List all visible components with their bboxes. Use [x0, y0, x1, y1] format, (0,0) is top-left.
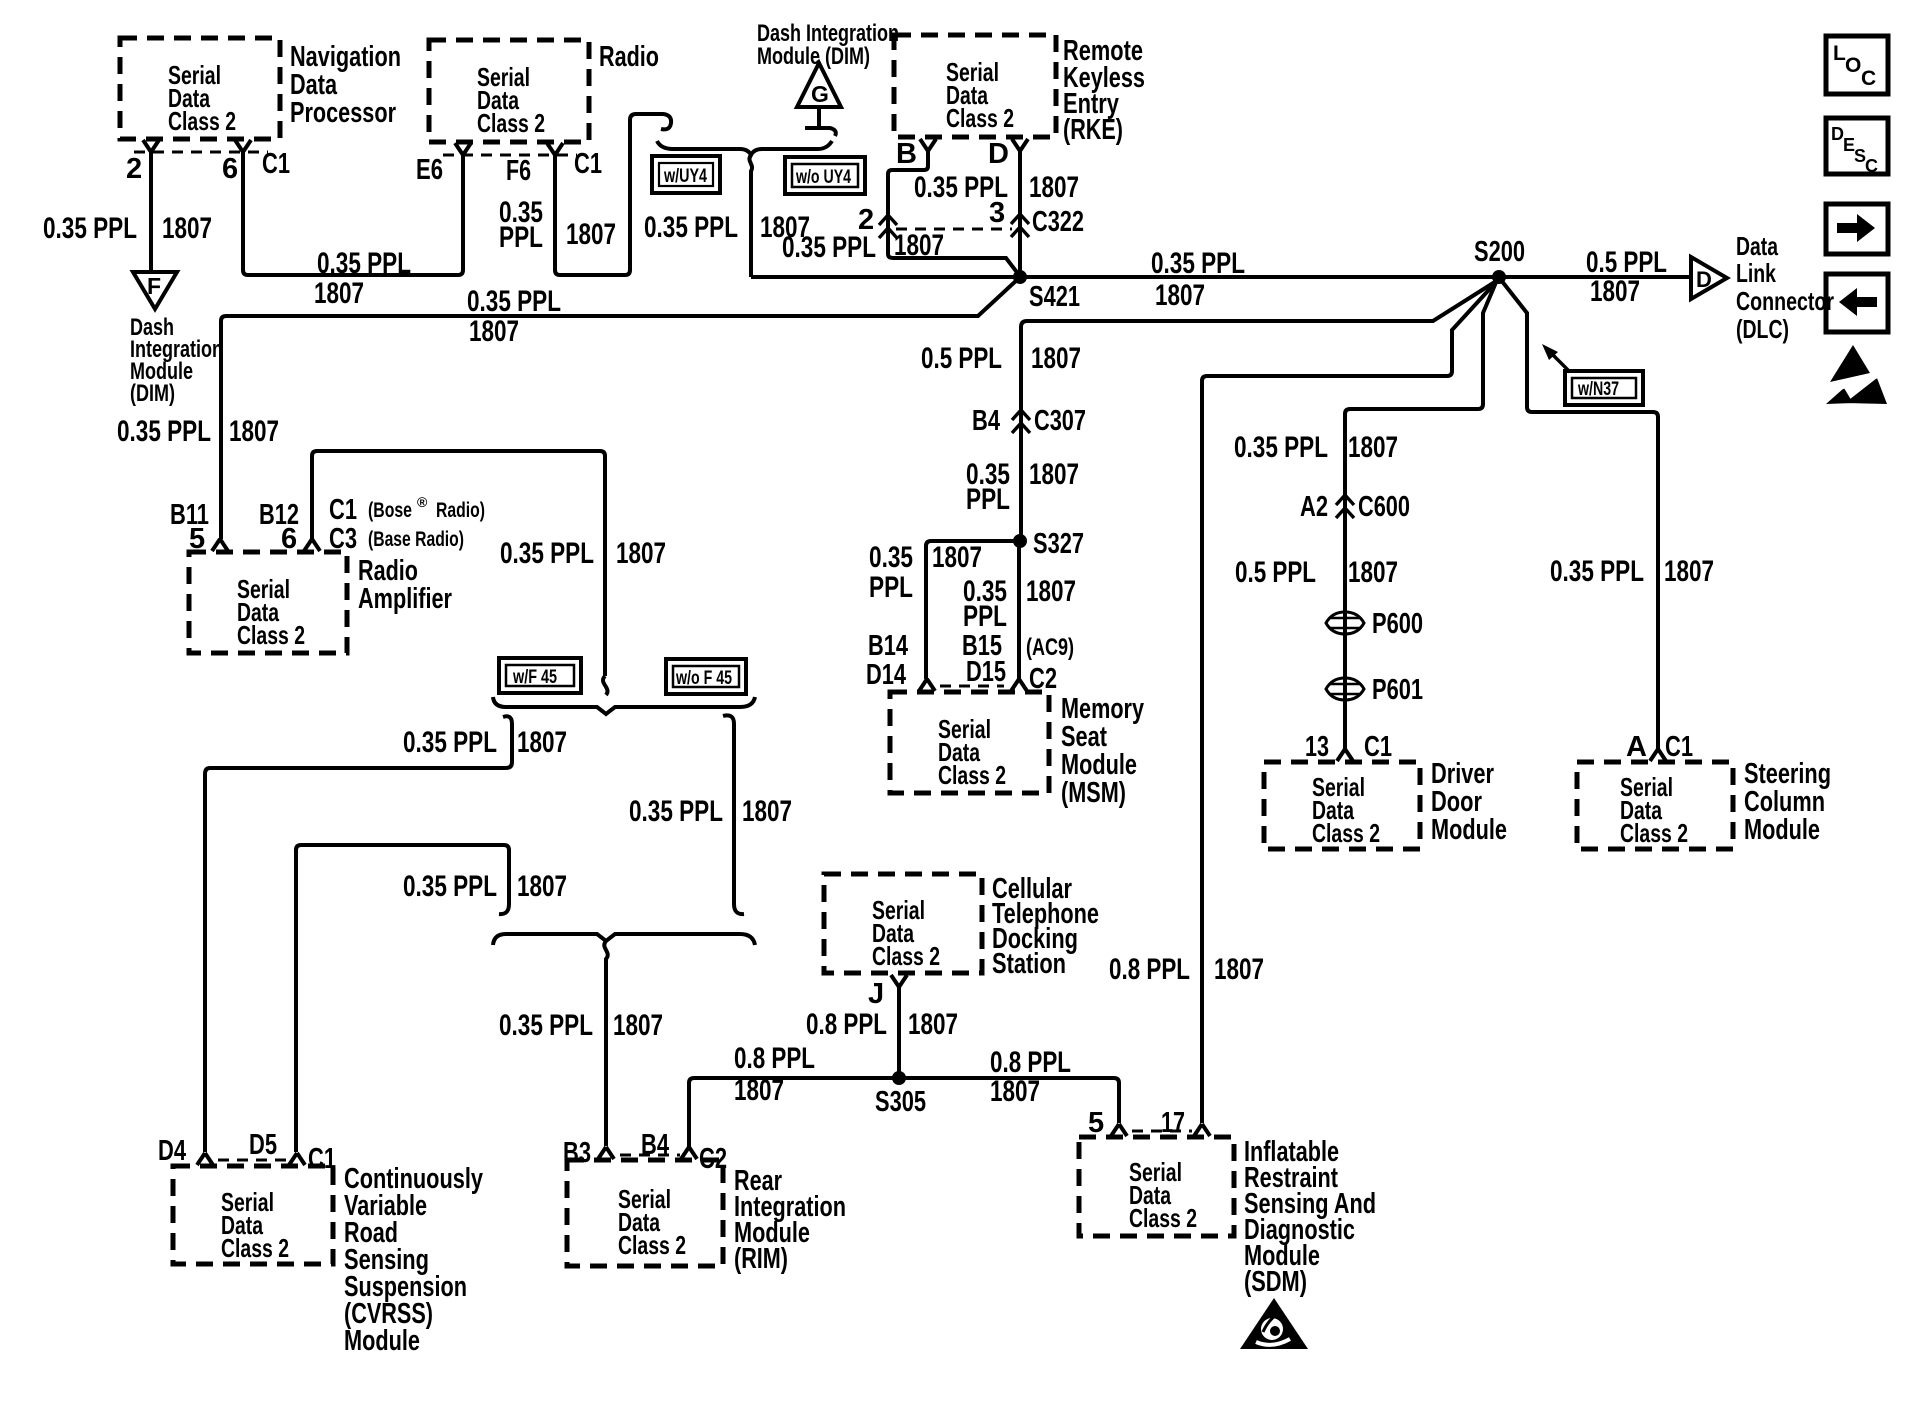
svg-text:1807: 1807: [616, 537, 666, 570]
svg-text:0.8 PPL: 0.8 PPL: [1109, 953, 1190, 986]
svg-text:G: G: [811, 81, 829, 107]
svg-text:0.35 PPL: 0.35 PPL: [629, 795, 723, 828]
icon ESD warning symbol: [1826, 345, 1887, 404]
svg-text:A: A: [1626, 731, 1647, 763]
pin B (RKE): [896, 138, 936, 170]
svg-text:C307: C307: [1034, 405, 1086, 437]
svg-text:S421: S421: [1029, 281, 1080, 313]
module Inflatable Restraint SDM (Serial Data Class 2 box): [1079, 1136, 1376, 1298]
svg-text:C600: C600: [1358, 491, 1410, 523]
option brace w/UY4 w/o UY4: [657, 141, 832, 155]
wire 0.5 PPL run S200 down to S327: [1021, 280, 1498, 537]
label 0.35 PPL 1807 (w/F45 branch): [403, 726, 567, 759]
svg-text:1807: 1807: [613, 1009, 663, 1042]
svg-text:B: B: [896, 138, 917, 170]
label B11 5: [170, 499, 209, 555]
svg-text:D5: D5: [249, 1129, 277, 1161]
connector C307 chevron: [1012, 410, 1030, 433]
pin 6 B12 (Radio Amplifier): [304, 539, 320, 551]
connector dashed line above SDM box: [1132, 1130, 1192, 1133]
svg-text:(MSM): (MSM): [1061, 777, 1126, 809]
svg-text:(SDM): (SDM): [1244, 1266, 1307, 1298]
svg-text:Class 2: Class 2: [477, 108, 545, 138]
label 0.35 PPL 1807 (pin2 wire): [43, 212, 212, 245]
label 0.35 PPL 1807 (pin6-E6 wire): [314, 247, 411, 310]
svg-text:Class 2: Class 2: [938, 760, 1006, 790]
pin D4 (CVRSS): [197, 1153, 213, 1165]
svg-text:0.35 PPL: 0.35 PPL: [914, 171, 1008, 204]
wire pin2 to triangle F: [149, 151, 153, 272]
svg-text:®: ®: [417, 494, 428, 510]
connector C322 chevron on D wire: [1011, 214, 1029, 237]
svg-text:PPL: PPL: [963, 600, 1007, 633]
splice S421: [1013, 270, 1080, 313]
svg-text:(RIM): (RIM): [734, 1243, 788, 1275]
svg-text:E6: E6: [416, 154, 443, 186]
pin 13 (Driver Door Module): [1337, 749, 1353, 761]
svg-text:O: O: [1845, 54, 1861, 77]
wire S327 left branch to D14: [926, 541, 1016, 679]
wire second left branch to CVRSS D5: [296, 845, 509, 1152]
svg-text:C322: C322: [1032, 206, 1084, 238]
svg-text:Radio): Radio): [436, 499, 485, 522]
wire S200 branch down to Steering Column Module: [1501, 280, 1658, 749]
label 0.8 PPL 1807 (J wire): [806, 1008, 958, 1041]
svg-text:1807: 1807: [1155, 279, 1205, 312]
svg-text:1807: 1807: [932, 541, 982, 574]
svg-text:0.35 PPL: 0.35 PPL: [467, 285, 561, 318]
svg-text:C1: C1: [574, 148, 602, 180]
svg-text:Class 2: Class 2: [237, 620, 305, 650]
svg-text:Class 2: Class 2: [221, 1233, 289, 1263]
label B15 D15 (AC9) C2: [962, 630, 1074, 695]
svg-text:Module: Module: [1744, 814, 1820, 846]
svg-text:0.5 PPL: 0.5 PPL: [1235, 556, 1316, 589]
label 0.35 PPL 1807 (DDM wire): [1234, 431, 1398, 464]
svg-text:1807: 1807: [908, 1008, 958, 1041]
svg-text:0.35 PPL: 0.35 PPL: [317, 247, 411, 280]
module Memory Seat Module MSM (Serial Data Class 2 box): [890, 692, 1144, 809]
svg-text:Data: Data: [1736, 231, 1778, 261]
svg-text:D: D: [1696, 267, 1712, 292]
svg-text:0.35 PPL: 0.35 PPL: [117, 415, 211, 448]
svg-text:Class 2: Class 2: [946, 103, 1014, 133]
svg-text:(Base Radio): (Base Radio): [368, 528, 464, 551]
connector C1 dashed line above CVRSS box: [218, 1159, 288, 1162]
pin D5 (CVRSS): [289, 1153, 305, 1165]
label Data Link Connector (DLC): [1736, 231, 1834, 344]
svg-text:Class 2: Class 2: [618, 1230, 686, 1260]
wire squiggle from B12 wire into upper brace: [603, 676, 608, 695]
option brace lower joining to RIM B3: [493, 934, 755, 945]
svg-text:0.35 PPL: 0.35 PPL: [499, 1009, 593, 1042]
label 0.8 PPL 1807 (B4 wire): [734, 1042, 815, 1107]
svg-text:w/o UY4: w/o UY4: [795, 167, 851, 188]
airbag warning triangle (SDM): [1240, 1298, 1308, 1349]
option brace w/F45 w/o F45 upper: [493, 697, 755, 714]
label B3 B4 C2 (RIM pins): [563, 1129, 727, 1175]
pin 17 (SDM): [1194, 1124, 1210, 1136]
svg-text:Connector: Connector: [1736, 286, 1834, 316]
svg-text:C: C: [1861, 67, 1876, 90]
svg-text:Station: Station: [992, 948, 1066, 980]
svg-text:0.35 PPL: 0.35 PPL: [403, 726, 497, 759]
label 0.35 PPL 1807 (brace wire): [644, 211, 810, 244]
svg-text:0.35 PPL: 0.35 PPL: [1550, 555, 1644, 588]
svg-text:0.8 PPL: 0.8 PPL: [734, 1042, 815, 1075]
label 0.35 PPL 1807 (SCM wire): [1550, 555, 1714, 588]
pin B3 (RIM): [598, 1147, 614, 1159]
connector C322 chevron on B wire: [879, 215, 897, 238]
label B4 C307: [972, 405, 1086, 437]
wire brace center squiggle down to main run: [749, 155, 752, 277]
label 0.35 PPL 1807 (D15 branch): [963, 575, 1076, 633]
label 0.35 PPL 1807 (C307 to S327): [966, 458, 1079, 516]
svg-text:w/UY4: w/UY4: [663, 166, 707, 187]
label 0.35 PPL 1807 (second branch): [403, 870, 567, 903]
label 0.5 PPL 1807 (S200 to DLC): [1586, 246, 1667, 308]
icon box DESC: [1826, 118, 1888, 176]
svg-text:(DIM): (DIM): [130, 380, 175, 407]
module Radio (Serial Data Class 2 box): [429, 40, 659, 142]
connector C600 chevron: [1336, 495, 1354, 518]
wire RIM B4 up and right through S305 to SDM pin 5: [689, 1078, 1119, 1147]
svg-text:1807: 1807: [894, 229, 944, 262]
module Navigation Data Processor (Serial Data Class 2 box): [120, 38, 401, 139]
pin B4 (RIM): [681, 1147, 697, 1159]
label 0.35 PPL 1807 (DIM horizontal): [467, 285, 561, 348]
label 0.35 PPL 1807 (DIM to B11): [117, 415, 279, 448]
svg-text:D: D: [988, 138, 1009, 170]
wire G stem with T-bar: [805, 109, 836, 136]
svg-text:Link: Link: [1736, 258, 1776, 288]
label 0.35 PPL 1807 (B wire): [782, 229, 944, 264]
svg-text:1807: 1807: [469, 315, 519, 348]
inline connector P600: [1326, 608, 1423, 640]
splice S200: [1474, 236, 1525, 284]
svg-text:Radio: Radio: [599, 41, 659, 73]
svg-text:D14: D14: [866, 659, 906, 691]
svg-text:0.35 PPL: 0.35 PPL: [1234, 431, 1328, 464]
connector C1 dashed line under Radio box: [443, 154, 577, 157]
connector C2 dashed line above RIM box: [620, 1154, 680, 1157]
label B12 6: [259, 499, 299, 555]
svg-text:C1: C1: [1665, 731, 1693, 763]
svg-text:A2: A2: [1300, 491, 1328, 523]
option box w/o F 45: [666, 659, 746, 694]
pin 6 (Navigation C1): [222, 140, 290, 185]
svg-text:w/o F 45: w/o F 45: [675, 668, 732, 689]
wire J to S305: [897, 986, 901, 1076]
module Radio Amplifier (Serial Data Class 2 box): [189, 552, 452, 653]
pin E6 (Radio C1): [416, 143, 471, 186]
svg-text:1807: 1807: [1026, 575, 1076, 608]
module Steering Column Module (Serial Data Class 2 box): [1577, 758, 1831, 849]
svg-text:Class 2: Class 2: [168, 106, 236, 136]
svg-text:C1: C1: [329, 494, 357, 526]
label 0.5 PPL 1807 (C600 to P600): [1235, 556, 1398, 589]
svg-text:P601: P601: [1372, 674, 1423, 706]
icon box left arrow: [1826, 274, 1888, 332]
svg-text:w/F 45: w/F 45: [512, 667, 557, 688]
pin F6 (Radio C1): [506, 143, 602, 187]
svg-text:(Bose: (Bose: [368, 499, 412, 522]
wire S327 right branch to D15: [1017, 545, 1021, 679]
label 0.35 PPL 1807 (D14 branch): [869, 541, 982, 604]
svg-text:C1: C1: [262, 148, 290, 180]
label 0.5 PPL 1807 (S421 down): [921, 342, 1081, 375]
pin D (RKE): [988, 138, 1028, 170]
wire RKE pin B to S421: [888, 150, 1019, 275]
module Remote Keyless Entry RKE (Serial Data Class 2 box): [894, 35, 1145, 146]
off-page triangle D to DLC: [1691, 257, 1727, 299]
svg-text:1807: 1807: [517, 870, 567, 903]
label 0.8 PPL 1807 (SDM 17 wire): [1109, 953, 1264, 986]
svg-text:Processor: Processor: [290, 97, 396, 129]
svg-text:J: J: [868, 978, 884, 1010]
inline connector P601: [1326, 674, 1423, 706]
wire w/F45 option branch to CVRSS D4: [205, 716, 512, 1152]
svg-text:1807: 1807: [734, 1074, 784, 1107]
svg-text:(DLC): (DLC): [1736, 314, 1789, 344]
pin 5 B11 (Radio Amplifier): [212, 539, 228, 551]
splice S327: [1013, 528, 1084, 560]
label 0.35 PPL 1807 (B12 wire): [500, 537, 666, 570]
svg-text:S200: S200: [1474, 236, 1525, 268]
connector C322 dashed line: [896, 228, 1012, 231]
svg-text:0.35 PPL: 0.35 PPL: [644, 211, 738, 244]
wire RKE pin D to S421: [1018, 150, 1022, 274]
wire pin6 to E6: [243, 151, 463, 275]
label 0.35 PPL 1807 (w/o F45 branch): [629, 795, 792, 828]
svg-text:0.35 PPL: 0.35 PPL: [1151, 247, 1245, 280]
svg-text:1807: 1807: [1348, 556, 1398, 589]
wire main run to S200 and DLC triangle: [751, 275, 1691, 279]
svg-text:Class 2: Class 2: [872, 941, 940, 971]
label C1 (Bose Radio) C3 (Base Radio): [329, 494, 485, 555]
svg-text:2: 2: [126, 153, 142, 185]
module Cellular Telephone Docking Station (Serial Data Class 2 box): [824, 873, 1099, 980]
svg-text:0.35: 0.35: [869, 541, 913, 574]
svg-text:6: 6: [222, 153, 238, 185]
label 0.35 PPL 1807 (F6 wire): [499, 196, 616, 254]
pin 2 (Navigation C1): [126, 140, 159, 185]
svg-text:0.5 PPL: 0.5 PPL: [921, 342, 1002, 375]
pin J (Cellular): [868, 975, 907, 1010]
svg-text:1807: 1807: [314, 277, 364, 310]
module Driver Door Module (Serial Data Class 2 box): [1264, 758, 1507, 849]
option box w/N37 with arrow: [1542, 344, 1643, 405]
wire S200 branch down to SDM pin 17: [1202, 281, 1497, 1123]
svg-text:F: F: [147, 273, 161, 299]
svg-text:1807: 1807: [1031, 342, 1081, 375]
label A2 C600: [1300, 491, 1410, 523]
svg-text:(AC9): (AC9): [1026, 634, 1074, 661]
svg-text:1807: 1807: [1348, 431, 1398, 464]
wire w/o F45 option branch down: [723, 715, 744, 914]
svg-text:F6: F6: [506, 155, 531, 187]
module CVRSS (Serial Data Class 2 box): [173, 1163, 483, 1357]
svg-text:1807: 1807: [1029, 171, 1079, 204]
svg-text:5: 5: [1088, 1107, 1104, 1139]
svg-text:0.8 PPL: 0.8 PPL: [806, 1008, 887, 1041]
svg-text:w/N37: w/N37: [1577, 379, 1619, 400]
svg-text:0.35 PPL: 0.35 PPL: [500, 537, 594, 570]
svg-text:13: 13: [1305, 731, 1329, 763]
svg-text:0.35 PPL: 0.35 PPL: [43, 212, 137, 245]
module Rear Integration Module RIM (Serial Data Class 2 box): [567, 1160, 846, 1275]
wire radio amplifier B12 up and over to option brace: [312, 451, 605, 676]
svg-text:Module: Module: [1431, 814, 1507, 846]
label 5 17 (SDM pins): [1088, 1107, 1185, 1139]
svg-text:PPL: PPL: [966, 483, 1010, 516]
svg-text:C: C: [1865, 156, 1878, 176]
svg-text:C1: C1: [1364, 731, 1392, 763]
svg-text:17: 17: [1161, 1107, 1185, 1139]
svg-text:1807: 1807: [742, 795, 792, 828]
svg-text:1807: 1807: [162, 212, 212, 245]
wire squiggle below lower brace: [604, 941, 607, 1146]
option box w/o UY4: [785, 157, 865, 194]
svg-text:0.35 PPL: 0.35 PPL: [782, 231, 876, 264]
svg-text:D15: D15: [966, 656, 1006, 688]
svg-text:Class 2: Class 2: [1312, 818, 1380, 848]
svg-text:1807: 1807: [1214, 953, 1264, 986]
wire DIM horizontal to S421: [221, 279, 1018, 539]
svg-text:1807: 1807: [517, 726, 567, 759]
label 13 C1 (DDM pin): [1305, 731, 1392, 763]
label Dash Integration Module (DIM) top: [757, 20, 899, 70]
connector C2 dashed line above MSM box: [940, 685, 1004, 688]
svg-text:Amplifier: Amplifier: [358, 583, 452, 615]
svg-text:(RKE): (RKE): [1063, 114, 1123, 146]
option box w/F 45: [499, 658, 581, 693]
icon box LOC: [1826, 36, 1888, 94]
label 0.35 PPL 1807 (S421 to S200): [1151, 247, 1245, 312]
label A C1 (SCM pin): [1626, 731, 1693, 763]
svg-text:D4: D4: [158, 1135, 186, 1167]
pin A (Steering Column Module): [1650, 749, 1666, 761]
wire F6 to option hook: [555, 114, 671, 275]
off-page triangle G: [797, 63, 841, 107]
svg-text:Class 2: Class 2: [1129, 1203, 1197, 1233]
svg-text:1807: 1807: [229, 415, 279, 448]
wire S200 branch down to Driver Door Module: [1345, 280, 1497, 749]
pin 5 (SDM): [1111, 1124, 1127, 1136]
svg-text:Module (DIM): Module (DIM): [757, 43, 870, 70]
label 0.35 PPL 1807 (D wire): [914, 171, 1079, 204]
svg-text:Module: Module: [344, 1325, 420, 1357]
pin D14 (MSM C2): [919, 679, 935, 691]
label 0.8 PPL 1807 (S305 to SDM): [990, 1046, 1071, 1108]
svg-text:PPL: PPL: [869, 571, 913, 604]
pin D15 (MSM C2): [1011, 679, 1027, 691]
svg-text:PPL: PPL: [499, 221, 543, 254]
svg-text:S327: S327: [1033, 528, 1084, 560]
svg-text:S305: S305: [875, 1086, 926, 1118]
splice S305: [875, 1071, 926, 1118]
label D4 D5 C1 (CVRSS pins): [158, 1129, 336, 1175]
svg-text:1807: 1807: [990, 1075, 1040, 1108]
svg-text:B14: B14: [868, 630, 908, 662]
svg-text:P600: P600: [1372, 608, 1423, 640]
label Dash Integration Module (DIM) left: [130, 314, 223, 407]
svg-text:1807: 1807: [1664, 555, 1714, 588]
label 3 C322: [989, 197, 1084, 238]
label B14 D14: [866, 630, 908, 691]
connector C1 dashed line under Navigation box: [134, 151, 268, 154]
svg-text:Class 2: Class 2: [1620, 818, 1688, 848]
svg-text:B4: B4: [972, 405, 1000, 437]
svg-text:1807: 1807: [1029, 458, 1079, 491]
off-page triangle F: [133, 272, 177, 309]
icon box right arrow: [1826, 204, 1888, 254]
label 0.35 PPL 1807 (RIM B3 wire): [499, 1009, 663, 1042]
option box w/UY4: [652, 156, 720, 193]
svg-text:1807: 1807: [566, 218, 616, 251]
svg-text:0.35 PPL: 0.35 PPL: [403, 870, 497, 903]
svg-text:1807: 1807: [1590, 275, 1640, 308]
